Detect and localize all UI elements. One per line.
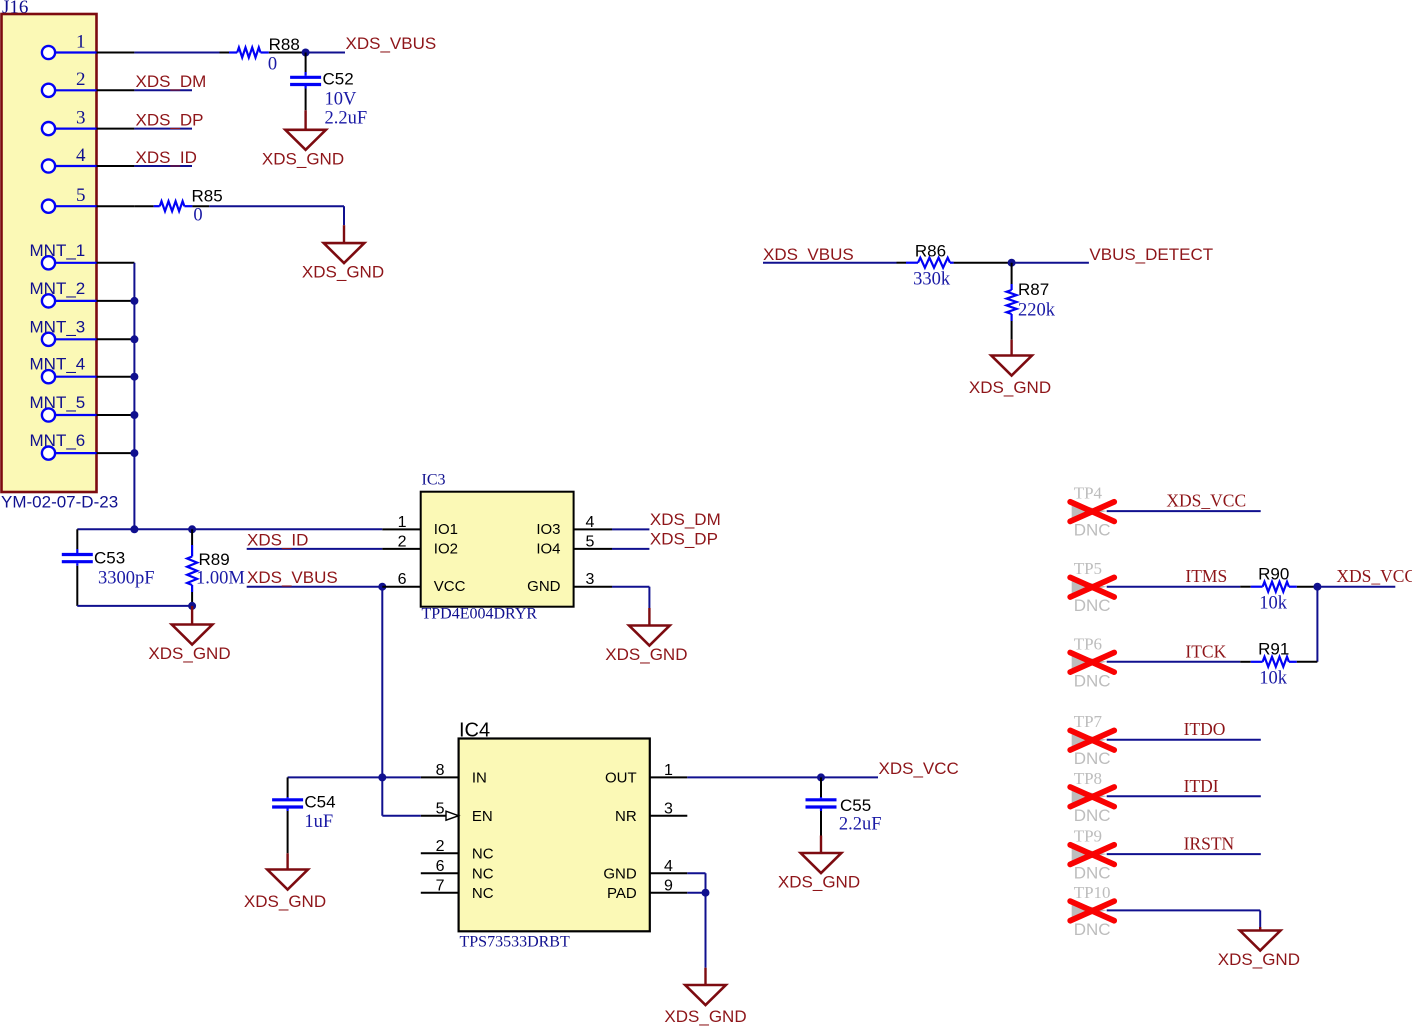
- svg-text:XDS_GND: XDS_GND: [605, 645, 687, 664]
- svg-text:DNC: DNC: [1074, 864, 1111, 883]
- wire: [343, 206, 345, 225]
- junction: [188, 602, 196, 610]
- svg-text:2: 2: [436, 838, 445, 855]
- svg-text:10k: 10k: [1259, 594, 1288, 614]
- svg-text:TP6: TP6: [1074, 634, 1102, 653]
- svg-text:XDS_GND: XDS_GND: [262, 149, 344, 168]
- svg-text:EN: EN: [472, 808, 493, 825]
- wire: [77, 605, 192, 607]
- pin 3 of J16: [42, 107, 134, 135]
- svg-text:R87: R87: [1018, 280, 1049, 299]
- wire: [1107, 661, 1241, 663]
- wire: [1012, 262, 1089, 264]
- wire: [612, 548, 649, 550]
- ground: [267, 853, 308, 889]
- junction: [130, 449, 138, 457]
- svg-text:XDS_DM: XDS_DM: [136, 72, 207, 91]
- svg-text:6: 6: [436, 858, 445, 875]
- wire: [288, 776, 421, 778]
- svg-text:C52: C52: [323, 69, 354, 88]
- svg-text:TPS73533DRBT: TPS73533DRBT: [460, 934, 570, 951]
- wire: [1316, 587, 1318, 662]
- svg-text:XDS_GND: XDS_GND: [1218, 950, 1300, 969]
- svg-text:1uF: 1uF: [304, 812, 333, 832]
- svg-text:XDS_VCC: XDS_VCC: [1336, 566, 1412, 586]
- svg-text:ITCK: ITCK: [1185, 641, 1226, 661]
- wire: [1107, 586, 1241, 588]
- pin MNT_5 of J16: [30, 393, 135, 422]
- wire: [134, 128, 192, 130]
- svg-text:6: 6: [398, 571, 407, 588]
- svg-text:DNC: DNC: [1074, 671, 1111, 690]
- svg-text:ITMS: ITMS: [1185, 566, 1227, 586]
- ground: [629, 608, 670, 646]
- wire: [77, 528, 382, 530]
- svg-text:TP10: TP10: [1074, 883, 1111, 902]
- svg-text:XDS_DP: XDS_DP: [136, 111, 204, 130]
- ground: [685, 968, 726, 1005]
- wire: [612, 528, 649, 530]
- wire: [134, 89, 192, 91]
- svg-text:XDS_ID: XDS_ID: [247, 530, 308, 549]
- junction: [130, 525, 138, 533]
- ground: [1240, 927, 1281, 951]
- svg-text:XDS_VCC: XDS_VCC: [879, 759, 959, 778]
- test point TP8: [1070, 769, 1114, 825]
- svg-text:9: 9: [664, 877, 673, 894]
- wire: [1107, 909, 1261, 911]
- pin 5 of J16: [42, 185, 134, 213]
- svg-text:2.2uF: 2.2uF: [325, 108, 368, 128]
- wire: [1259, 910, 1261, 927]
- pin MNT_2 of J16: [30, 279, 135, 308]
- svg-text:XDS_GND: XDS_GND: [969, 378, 1051, 397]
- svg-text:R91: R91: [1258, 640, 1289, 659]
- pin MNT_3 of J16: [30, 317, 135, 346]
- wire: [1107, 795, 1261, 797]
- svg-text:IO2: IO2: [434, 540, 458, 557]
- capacitor C55: [806, 777, 837, 835]
- wire: [134, 165, 192, 167]
- svg-text:4: 4: [586, 514, 595, 531]
- svg-text:1: 1: [76, 31, 86, 52]
- svg-text:4: 4: [664, 858, 673, 875]
- svg-text:5: 5: [586, 533, 595, 550]
- ground: [172, 606, 213, 645]
- svg-text:3: 3: [76, 107, 86, 128]
- junction: [702, 889, 710, 897]
- wire: [247, 548, 383, 550]
- wire XDS_VBUS down to IC4: [381, 587, 383, 816]
- svg-text:MNT_3: MNT_3: [30, 317, 86, 336]
- svg-text:DNC: DNC: [1074, 806, 1111, 825]
- svg-text:TP9: TP9: [1074, 827, 1102, 846]
- svg-text:XDS_ID: XDS_ID: [136, 148, 197, 167]
- svg-text:MNT_4: MNT_4: [30, 355, 86, 374]
- svg-text:7: 7: [436, 877, 445, 894]
- svg-text:XDS_VBUS: XDS_VBUS: [346, 34, 437, 53]
- svg-text:10k: 10k: [1259, 669, 1288, 689]
- svg-text:DNC: DNC: [1074, 596, 1111, 615]
- capacitor C52: [290, 53, 321, 111]
- svg-text:220k: 220k: [1018, 301, 1056, 321]
- svg-text:GND: GND: [527, 578, 561, 595]
- test point TP5: [1070, 559, 1114, 615]
- wire: [1107, 510, 1261, 512]
- svg-text:3: 3: [586, 571, 595, 588]
- svg-text:IC3: IC3: [422, 472, 446, 489]
- svg-text:2: 2: [76, 69, 86, 90]
- pin 1 of J16: [42, 31, 134, 59]
- junction: [130, 373, 138, 381]
- ground: [324, 225, 365, 263]
- pin MNT_6 of J16: [30, 431, 135, 460]
- svg-text:R86: R86: [915, 242, 946, 261]
- svg-text:PAD: PAD: [607, 885, 637, 902]
- svg-text:OUT: OUT: [605, 770, 637, 787]
- svg-text:DNC: DNC: [1074, 521, 1111, 540]
- capacitor C54: [272, 777, 303, 853]
- svg-text:R85: R85: [192, 186, 223, 205]
- resistor R85: [135, 201, 210, 211]
- test point TP9: [1070, 827, 1114, 883]
- svg-text:C53: C53: [94, 549, 125, 568]
- regulator IC4 TPS73533DRBT: [421, 719, 688, 950]
- ground: [285, 110, 326, 150]
- svg-text:10V: 10V: [325, 90, 358, 110]
- ground: [991, 340, 1032, 376]
- svg-text:XDS_DP: XDS_DP: [650, 530, 718, 549]
- svg-text:R88: R88: [269, 35, 300, 54]
- svg-text:ITDO: ITDO: [1184, 719, 1226, 739]
- junction: [1313, 583, 1321, 591]
- svg-text:XDS_VBUS: XDS_VBUS: [247, 568, 338, 587]
- wire: [134, 52, 219, 54]
- svg-text:3300pF: 3300pF: [98, 569, 155, 589]
- svg-text:NC: NC: [472, 846, 494, 863]
- wire: [687, 892, 705, 894]
- junction: [817, 773, 825, 781]
- wire: [382, 815, 421, 817]
- wire: [1107, 853, 1261, 855]
- svg-text:8: 8: [436, 762, 445, 779]
- junction: [378, 583, 386, 591]
- svg-text:VCC: VCC: [434, 578, 466, 595]
- svg-text:DNC: DNC: [1074, 920, 1111, 939]
- wire: [705, 873, 707, 893]
- svg-text:TP4: TP4: [1074, 484, 1103, 503]
- svg-text:1.00M: 1.00M: [196, 569, 245, 589]
- junction: [130, 297, 138, 305]
- svg-text:TP5: TP5: [1074, 559, 1102, 578]
- wire: [1107, 739, 1261, 741]
- resistor R91: [1240, 657, 1317, 667]
- wire: [612, 586, 649, 588]
- svg-text:2: 2: [398, 533, 407, 550]
- wire: [687, 776, 878, 778]
- wire: [648, 587, 650, 608]
- resistor R86: [897, 258, 1012, 268]
- svg-text:XDS_GND: XDS_GND: [244, 892, 326, 911]
- pin 4 of J16: [42, 145, 134, 173]
- svg-text:XDS_VBUS: XDS_VBUS: [763, 245, 854, 264]
- wire: [306, 52, 345, 54]
- svg-text:IO3: IO3: [536, 521, 560, 538]
- test point TP7: [1070, 712, 1114, 768]
- svg-text:GND: GND: [603, 865, 637, 882]
- svg-text:TP8: TP8: [1074, 769, 1102, 788]
- svg-text:MNT_5: MNT_5: [30, 393, 86, 412]
- svg-text:NC: NC: [472, 865, 494, 882]
- svg-text:XDS_VCC: XDS_VCC: [1166, 491, 1246, 511]
- wire: [209, 205, 344, 207]
- pin 2 of J16: [42, 69, 134, 97]
- svg-text:IRSTN: IRSTN: [1184, 834, 1235, 854]
- junction: [378, 773, 386, 781]
- svg-text:IO1: IO1: [434, 521, 458, 538]
- svg-text:3: 3: [664, 800, 673, 817]
- junction: [188, 525, 196, 533]
- svg-text:TPD4E004DRYR: TPD4E004DRYR: [422, 606, 538, 623]
- svg-text:XDS_GND: XDS_GND: [148, 644, 230, 663]
- svg-text:1: 1: [664, 762, 673, 779]
- resistor R87: [1007, 263, 1017, 340]
- wire: [763, 262, 897, 264]
- svg-text:XDS_GND: XDS_GND: [778, 873, 860, 892]
- svg-text:0: 0: [193, 205, 202, 225]
- junction: [1008, 259, 1016, 267]
- svg-text:MNT_1: MNT_1: [30, 241, 86, 260]
- svg-text:ITDI: ITDI: [1184, 776, 1219, 796]
- resistor R90: [1240, 582, 1317, 592]
- svg-text:4: 4: [76, 145, 86, 166]
- resistor R89: [187, 529, 197, 606]
- wire: [705, 893, 707, 968]
- junction: [130, 335, 138, 343]
- svg-text:C54: C54: [304, 793, 335, 812]
- wire: [247, 586, 383, 588]
- svg-text:IO4: IO4: [536, 540, 560, 557]
- test point TP4: [1070, 484, 1114, 540]
- svg-text:5: 5: [436, 800, 445, 817]
- junction: [130, 411, 138, 419]
- svg-text:YM-02-07-D-23: YM-02-07-D-23: [1, 493, 118, 512]
- connector J16: [2, 0, 97, 492]
- test point TP6: [1070, 634, 1114, 690]
- svg-text:MNT_2: MNT_2: [30, 279, 86, 298]
- wire MNT bus: [133, 263, 135, 530]
- wire: [687, 872, 705, 874]
- svg-text:IN: IN: [472, 770, 487, 787]
- pin MNT_4 of J16: [30, 355, 135, 384]
- svg-text:VBUS_DETECT: VBUS_DETECT: [1089, 245, 1213, 264]
- svg-text:5: 5: [76, 185, 86, 206]
- wire: [1317, 586, 1395, 588]
- test point TP10: [1070, 883, 1114, 939]
- svg-text:XDS_GND: XDS_GND: [664, 1007, 746, 1026]
- pin MNT_1 of J16: [30, 241, 135, 270]
- svg-text:R90: R90: [1258, 565, 1289, 584]
- svg-text:2.2uF: 2.2uF: [839, 815, 882, 835]
- capacitor C53: [62, 529, 93, 606]
- resistor R88: [220, 48, 306, 58]
- ground: [801, 836, 842, 874]
- svg-text:C55: C55: [840, 796, 871, 815]
- svg-text:NR: NR: [615, 808, 637, 825]
- svg-text:TP7: TP7: [1074, 712, 1103, 731]
- svg-text:R89: R89: [199, 550, 230, 569]
- IC3 TPD4E004DRYR ESD array: [382, 472, 612, 623]
- svg-text:XDS_GND: XDS_GND: [302, 262, 384, 281]
- svg-text:DNC: DNC: [1074, 749, 1111, 768]
- svg-text:NC: NC: [472, 885, 494, 902]
- svg-text:XDS_DM: XDS_DM: [650, 510, 721, 529]
- junction: [302, 49, 310, 57]
- svg-text:330k: 330k: [913, 270, 951, 290]
- svg-text:1: 1: [398, 514, 407, 531]
- svg-text:0: 0: [268, 55, 277, 75]
- svg-text:MNT_6: MNT_6: [30, 431, 86, 450]
